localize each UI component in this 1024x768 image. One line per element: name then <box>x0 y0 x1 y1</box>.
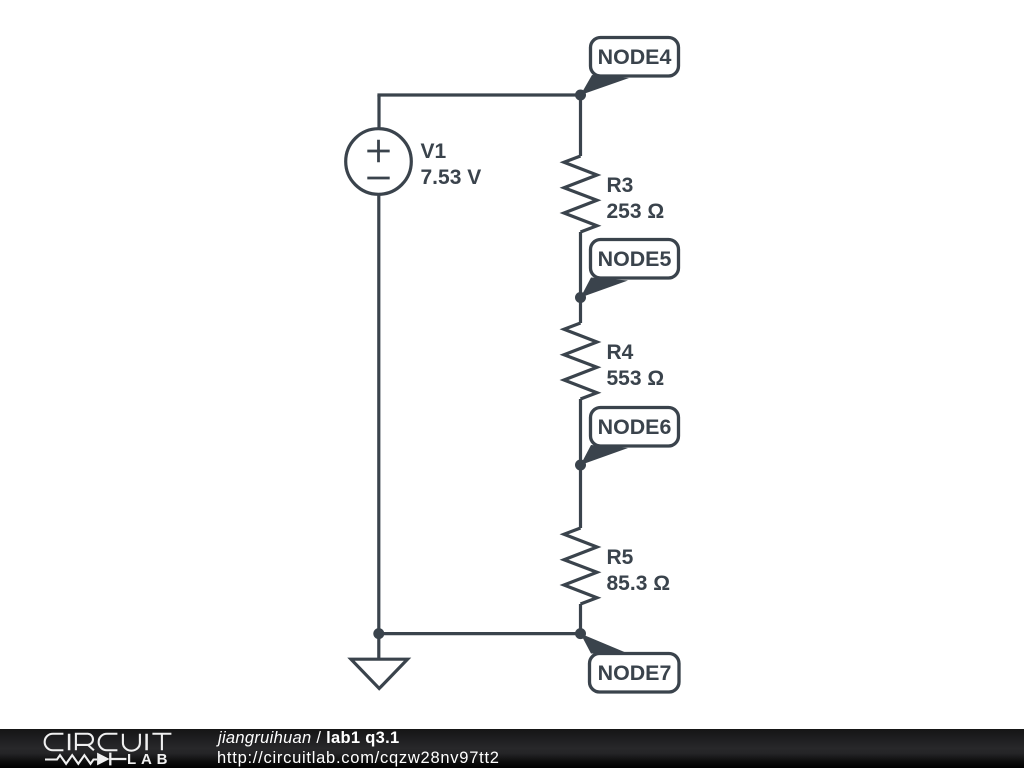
node NODE7 flag pointer <box>581 634 629 654</box>
wire R5 to NODE7 <box>579 604 582 634</box>
footer logo resistor squiggle <box>45 755 97 764</box>
svg-text:R5: R5 <box>607 546 634 569</box>
svg-text:NODE6: NODE6 <box>598 415 672 439</box>
node NODE4 label box <box>591 38 679 77</box>
svg-text:V1: V1 <box>421 140 447 163</box>
wire top horizontal from V1 to NODE4 <box>377 93 580 96</box>
node NODE4 flag pointer <box>581 75 630 95</box>
svg-text:LAB: LAB <box>127 751 172 768</box>
resistor R5 <box>564 528 597 604</box>
node NODE7 junction dot <box>575 628 586 639</box>
svg-text:7.53 V: 7.53 V <box>421 166 482 189</box>
wire NODE6 to R5 <box>579 465 582 528</box>
svg-text:R4: R4 <box>607 341 634 364</box>
svg-text:85.3 Ω: 85.3 Ω <box>607 572 671 595</box>
footer CircuitLab logo wordmark CIRCUIT <box>45 734 172 751</box>
node NODE5 flag pointer <box>581 278 629 298</box>
wire R4 to NODE6 <box>579 399 582 465</box>
V1 plus symbol <box>367 140 389 162</box>
wire right column NODE4 to R3 <box>579 95 582 156</box>
svg-text:http://circuitlab.com/cqzw28nv: http://circuitlab.com/cqzw28nv97tt2 <box>217 749 500 767</box>
wire NODE5 to R4 <box>579 298 582 324</box>
node NODE6 label box <box>591 408 679 447</box>
node NODE6 junction dot <box>575 460 586 471</box>
resistor R3 <box>564 156 597 232</box>
wire left vertical top (V1 positive lead) <box>377 95 380 129</box>
node NODE6 flag pointer <box>581 445 629 465</box>
node NODE5 label box <box>591 240 679 279</box>
svg-text:jiangruihuan / lab1 q3.1: jiangruihuan / lab1 q3.1 <box>216 729 400 747</box>
svg-text:NODE5: NODE5 <box>598 247 672 271</box>
footer bar <box>0 729 1024 768</box>
svg-text:253 Ω: 253 Ω <box>607 200 665 223</box>
wire left vertical bottom (V1 negative lead down to ground junction) <box>377 194 380 659</box>
footer logo diode <box>97 753 110 766</box>
svg-text:NODE7: NODE7 <box>598 661 672 685</box>
ground <box>351 659 408 688</box>
node NODE7 label box <box>590 654 680 693</box>
svg-text:553 Ω: 553 Ω <box>607 367 665 390</box>
voltage source V1 circle <box>346 129 412 195</box>
resistor R4 <box>564 323 597 399</box>
svg-text:NODE4: NODE4 <box>598 45 672 69</box>
junction dot at ground node <box>373 628 384 639</box>
node NODE5 junction dot <box>575 292 586 303</box>
node NODE4 junction dot <box>575 90 586 101</box>
wire bottom horizontal <box>379 632 581 635</box>
svg-text:R3: R3 <box>607 174 634 197</box>
V1 minus symbol <box>367 177 389 180</box>
wire R3 to NODE5 <box>579 232 582 298</box>
